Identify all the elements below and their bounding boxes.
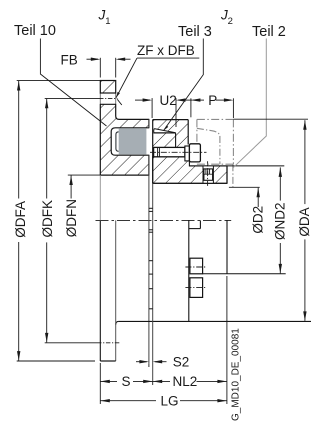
svg-text:1: 1 (105, 16, 110, 27)
bottom half: hub right face (226, 220, 228, 273)
dimension ØDFN (64, 176, 79, 238)
bottom half: cam ring right face silhouette (188, 220, 190, 321)
dimension P (191, 93, 234, 118)
grub screw (204, 169, 213, 180)
label Teil 3 + leader (164, 24, 212, 131)
S2 gap ticks (149, 208, 153, 308)
dimension NL2 (153, 374, 227, 389)
bottom fillet (116, 321, 119, 324)
ØDFN extension (68, 174, 101, 176)
grub screw hole (white) (203, 166, 213, 183)
ØDFA extension bottom (17, 360, 95, 362)
dimension ØDFK (40, 99, 55, 343)
dimension S (100, 374, 152, 389)
label J2 (220, 8, 233, 28)
flange bottom silhouette: body bottom edge + DA extension (119, 320, 311, 322)
bolt head (189, 144, 200, 162)
flange Teil 10 body hatched section (100, 104, 149, 175)
svg-text:ZF x DFB: ZF x DFB (137, 43, 195, 58)
bottom half: hub bottom silhouette + ND2 extension (203, 273, 286, 275)
hub left face lower half (152, 183, 154, 382)
svg-text:ØDFN: ØDFN (64, 199, 79, 237)
hub cam ring right face (187, 120, 189, 145)
dimension LG (100, 394, 227, 409)
svg-text:G_MD10_DE_00081: G_MD10_DE_00081 (231, 328, 242, 421)
flange Teil 10 rim upper hatched block (100, 81, 115, 94)
Teil 2 phantom outline (197, 119, 234, 187)
bottom half: set screw square 2 (185, 278, 206, 298)
flange face line upper gap (148, 119, 150, 127)
bolt shank (154, 147, 185, 156)
hub Teil 3 cam ring hatched block (153, 120, 189, 148)
svg-text:Teil 3: Teil 3 (178, 24, 212, 40)
dimension FB (61, 52, 131, 77)
bottom dimension extensions (100, 276, 227, 404)
bottom half: set screw square 1 (185, 258, 206, 274)
dimension ØND2 (272, 167, 287, 273)
hub bore line (153, 182, 227, 184)
svg-text:ØND2: ØND2 (272, 202, 287, 240)
bolt axis (150, 151, 207, 153)
bottom half: keyway channel (189, 220, 201, 228)
svg-text:Teil 10: Teil 10 (14, 23, 56, 39)
dimension S2 (136, 354, 189, 369)
bolt washer (185, 146, 190, 161)
hub cam wedge (white relief) (154, 129, 176, 133)
hub right face (226, 166, 228, 183)
bolt hole axis top (ØDFK extension) (45, 97, 118, 99)
centerline (96, 219, 232, 221)
flange rim outline lower half (100, 175, 115, 361)
hub cam ring top edge (153, 119, 189, 121)
svg-text:2: 2 (228, 16, 233, 27)
svg-text:ØDA: ØDA (297, 207, 312, 236)
label ZF x DFB + leader (116, 43, 199, 105)
svg-text:ØD2: ØD2 (250, 206, 265, 234)
ØDA extension top (233, 118, 308, 120)
hub left face (152, 120, 154, 184)
svg-text:S2: S2 (173, 354, 190, 369)
bolt hole axis bottom (ØDFK extension) (45, 342, 120, 344)
grub screw axis (207, 161, 209, 187)
bolt hole wall edges (100, 93, 115, 104)
dimension U2 (135, 93, 193, 127)
dimension ØDA (297, 120, 312, 321)
svg-text:FB: FB (61, 52, 78, 67)
dimension ØDFA (13, 81, 28, 361)
svg-text:ØDFA: ØDFA (13, 201, 28, 238)
svg-text:S: S (122, 374, 131, 389)
svg-text:Teil 2: Teil 2 (252, 24, 286, 40)
flange face line lower half (148, 155, 150, 363)
ØD2 extension (229, 186, 260, 188)
dimension ØD2 (250, 188, 265, 234)
label J1 (98, 8, 111, 28)
svg-text:P: P (208, 93, 217, 108)
elastomer element (grey) (119, 128, 147, 154)
svg-text:NL2: NL2 (173, 374, 198, 389)
label Teil 2 + leader (233, 24, 286, 168)
drawing number (231, 328, 242, 421)
ND2 surface line (189, 165, 284, 167)
label Teil 10 + leader (14, 23, 107, 126)
ØDFA extension top (17, 80, 101, 82)
elastomer left cap outline (116, 132, 119, 152)
svg-text:ØDFK: ØDFK (40, 200, 55, 238)
svg-text:U2: U2 (160, 93, 177, 108)
hub pocket wall edge (175, 133, 177, 148)
hub lower hatched body (153, 157, 227, 184)
svg-text:LG: LG (161, 394, 179, 409)
